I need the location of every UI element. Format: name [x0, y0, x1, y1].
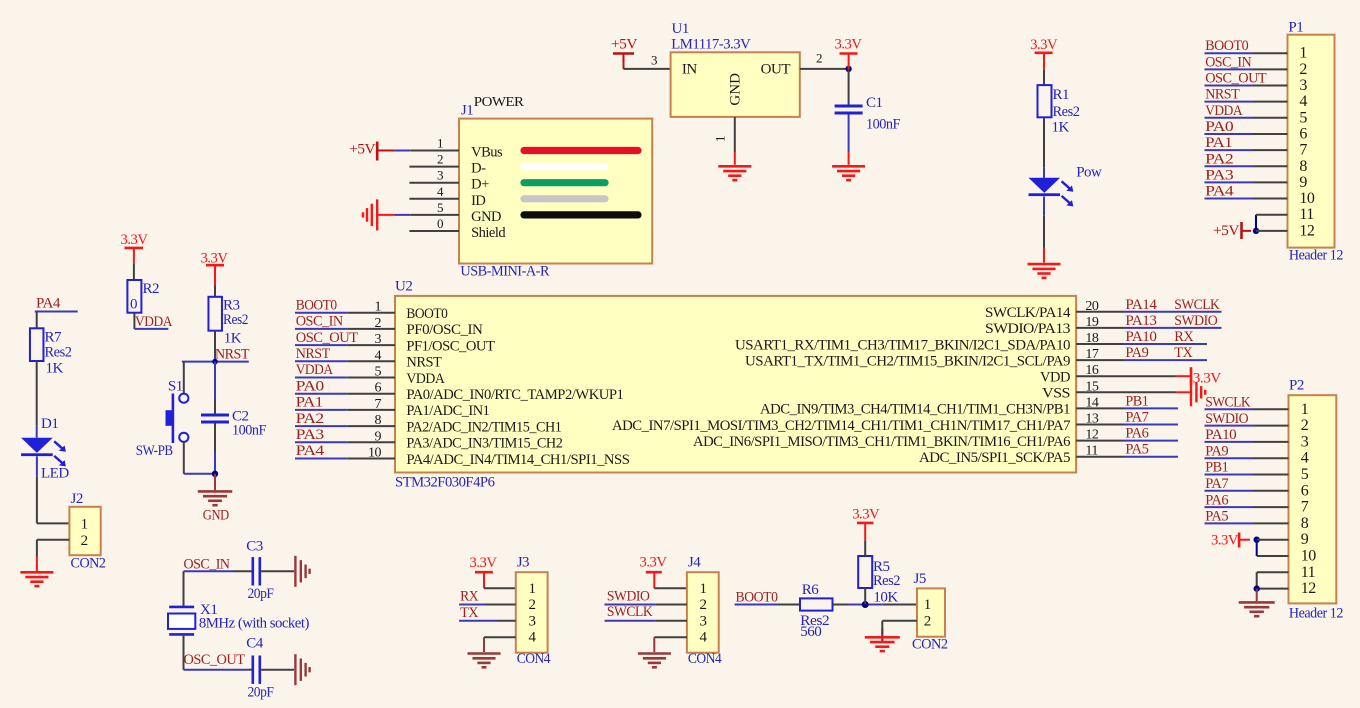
svg-text:VDDA: VDDA [135, 314, 173, 330]
svg-text:VBus: VBus [471, 145, 503, 161]
svg-text:6: 6 [1299, 125, 1307, 142]
ground (J2) [20, 571, 53, 574]
power 3.3V (VDD) [1190, 367, 1193, 385]
svg-text:PA1: PA1 [1205, 135, 1232, 151]
svg-text:3: 3 [529, 613, 536, 629]
svg-text:1: 1 [529, 581, 536, 597]
svg-text:U1: U1 [672, 21, 689, 37]
USB GND bar (black) [524, 211, 638, 218]
svg-text:8: 8 [375, 413, 382, 428]
wire [184, 570, 234, 572]
svg-text:PA7: PA7 [1125, 410, 1149, 426]
svg-text:TX: TX [460, 605, 479, 621]
svg-text:7: 7 [1301, 499, 1309, 516]
resistor R2 0 [127, 280, 141, 313]
svg-text:12: 12 [1301, 580, 1317, 597]
svg-text:USART1_RX/TIM1_CH3/TIM17_BKIN/: USART1_RX/TIM1_CH3/TIM17_BKIN/I2C1_SDA/P… [735, 337, 1070, 353]
wire [624, 68, 671, 70]
svg-text:3.3V: 3.3V [1030, 37, 1058, 53]
wire [409, 166, 459, 168]
wire [183, 571, 185, 606]
wire [1205, 149, 1254, 151]
ground (VSS) [1190, 378, 1192, 406]
svg-text:PA3/ADC_IN3/TIM15_CH2: PA3/ADC_IN3/TIM15_CH2 [406, 436, 562, 452]
svg-text:CON2: CON2 [71, 556, 106, 572]
wire [1205, 474, 1254, 476]
svg-text:2: 2 [1301, 417, 1309, 434]
svg-text:PA4: PA4 [296, 443, 325, 459]
wire [1076, 407, 1124, 409]
svg-text:RX: RX [460, 589, 479, 605]
svg-text:Pow: Pow [1076, 165, 1102, 181]
svg-text:PA7: PA7 [1205, 476, 1229, 492]
svg-text:12: 12 [1299, 222, 1315, 239]
wire [654, 636, 687, 638]
wire [1043, 117, 1045, 167]
wire [833, 604, 849, 606]
ground (J5) [865, 636, 900, 639]
svg-text:3: 3 [651, 53, 657, 68]
svg-text:Header 12: Header 12 [1289, 248, 1343, 264]
svg-text:PA4: PA4 [1205, 184, 1234, 200]
resistor R1 1K [1038, 85, 1052, 117]
wire [459, 604, 485, 606]
svg-text:ADC_IN9/TIM3_CH4/TIM14_CH1/TIM: ADC_IN9/TIM3_CH4/TIM14_CH1/TIM1_CH3N/PB1 [760, 402, 1070, 418]
svg-text:VSS: VSS [1042, 386, 1070, 402]
svg-text:4: 4 [1299, 93, 1307, 110]
svg-text:10: 10 [368, 446, 382, 461]
svg-text:+5V: +5V [1213, 223, 1240, 239]
svg-text:PA3: PA3 [1205, 167, 1233, 183]
node [1254, 585, 1260, 591]
svg-text:560: 560 [800, 624, 821, 640]
wire [214, 286, 216, 297]
crystal X1 8MHz [169, 606, 194, 609]
svg-text:BOOT0: BOOT0 [736, 590, 778, 606]
svg-text:PA1/ADC_IN1: PA1/ADC_IN1 [406, 403, 489, 419]
wire [864, 588, 866, 605]
wire [1205, 52, 1254, 54]
svg-text:2: 2 [700, 597, 707, 613]
wire [295, 441, 348, 443]
wire [1205, 457, 1254, 459]
svg-text:0: 0 [437, 216, 443, 231]
svg-text:9: 9 [1301, 531, 1309, 548]
svg-text:1K: 1K [1052, 120, 1070, 136]
svg-text:4: 4 [700, 630, 708, 646]
USB D- bar (white) [524, 163, 605, 170]
ground (J3) [468, 652, 501, 655]
svg-text:J1: J1 [461, 103, 473, 119]
svg-text:SWDIO: SWDIO [607, 588, 650, 604]
ground (OSC_OUT) [294, 654, 296, 685]
wire [295, 458, 348, 460]
svg-text:Res2: Res2 [45, 345, 72, 361]
svg-text:Res2: Res2 [1053, 104, 1080, 120]
svg-text:PA4/ADC_IN4/TIM14_CH1/SPI1_NSS: PA4/ADC_IN4/TIM14_CH1/SPI1_NSS [406, 452, 629, 468]
svg-text:PA10: PA10 [1205, 427, 1236, 443]
svg-text:1: 1 [713, 136, 728, 143]
svg-text:PA2/ADC_IN2/TIM15_CH1: PA2/ADC_IN2/TIM15_CH1 [406, 419, 561, 435]
svg-text:2: 2 [437, 152, 443, 167]
svg-text:Shield: Shield [471, 225, 506, 241]
svg-text:2: 2 [816, 51, 822, 66]
svg-text:2: 2 [1299, 61, 1307, 78]
svg-text:0: 0 [130, 297, 137, 313]
ground (C1) [832, 165, 865, 168]
svg-text:NRST: NRST [406, 355, 441, 371]
svg-text:PA6: PA6 [1205, 492, 1229, 508]
USB ID bar (gray) [524, 195, 605, 202]
svg-text:S1: S1 [168, 379, 183, 395]
svg-text:J3: J3 [517, 555, 529, 571]
svg-text:9: 9 [1299, 174, 1307, 191]
wire [261, 669, 294, 671]
svg-text:C3: C3 [246, 539, 263, 555]
wire [735, 604, 778, 606]
svg-text:POWER: POWER [474, 94, 524, 109]
wire [1205, 117, 1254, 119]
wire [848, 69, 850, 105]
svg-text:PA9: PA9 [1205, 443, 1228, 459]
wire [484, 587, 516, 589]
node [862, 601, 869, 608]
svg-text:ADC_IN7/SPI1_MOSI/TIM3_CH2/TIM: ADC_IN7/SPI1_MOSI/TIM3_CH2/TIM14_CH1/TIM… [612, 418, 1071, 434]
svg-text:CON4: CON4 [688, 651, 722, 667]
svg-text:5: 5 [1299, 109, 1307, 126]
svg-text:VDDA: VDDA [406, 371, 445, 387]
ground (Pow LED) [1028, 263, 1061, 266]
svg-text:100nF: 100nF [866, 117, 900, 133]
svg-text:3: 3 [1301, 433, 1309, 450]
wire [605, 604, 656, 606]
wire [1255, 215, 1257, 231]
wire [295, 425, 348, 427]
resistor R6 560 [800, 598, 833, 610]
svg-text:OSC_IN: OSC_IN [184, 556, 231, 572]
wire [1205, 181, 1254, 183]
svg-text:SWCLK: SWCLK [1205, 395, 1251, 411]
svg-text:8: 8 [1301, 515, 1309, 532]
wire [1076, 311, 1124, 313]
svg-text:11: 11 [1299, 206, 1314, 223]
svg-text:R7: R7 [45, 330, 63, 346]
wire (VDD) [1076, 375, 1175, 377]
node (3.3V rail) [845, 66, 851, 72]
svg-text:3.3V: 3.3V [835, 37, 863, 53]
wire [395, 150, 411, 152]
wire [295, 409, 348, 411]
wire [295, 328, 348, 330]
wire [1076, 456, 1124, 458]
svg-text:3: 3 [700, 613, 707, 629]
svg-text:BOOT0: BOOT0 [1205, 38, 1248, 54]
wire [1256, 540, 1258, 556]
svg-text:OSC_OUT: OSC_OUT [184, 652, 245, 668]
svg-text:2: 2 [529, 597, 536, 613]
svg-text:PA13: PA13 [1125, 313, 1156, 329]
svg-text:NRST: NRST [296, 346, 330, 362]
svg-text:9: 9 [375, 429, 382, 444]
wire [654, 587, 687, 589]
wire [1205, 165, 1254, 167]
svg-text:PA0: PA0 [296, 378, 324, 394]
wire [1043, 197, 1045, 216]
svg-text:Res2: Res2 [873, 573, 900, 589]
wire [37, 539, 70, 541]
svg-text:BOOT0: BOOT0 [296, 297, 337, 313]
svg-text:PA3: PA3 [296, 427, 324, 443]
svg-text:OUT: OUT [761, 62, 791, 78]
USB VBus bar (red) [524, 147, 638, 154]
wire [1043, 70, 1045, 85]
wire [459, 620, 497, 622]
capacitor C1 100nF [835, 105, 863, 108]
wire [605, 620, 656, 622]
wire [182, 361, 249, 363]
svg-text:CON4: CON4 [517, 651, 551, 667]
wire [484, 636, 516, 638]
svg-text:3: 3 [1299, 77, 1307, 94]
svg-text:3.3V: 3.3V [470, 555, 498, 571]
svg-text:Header 12: Header 12 [1289, 606, 1343, 622]
ground (P2) [1239, 601, 1275, 604]
wire [1076, 424, 1124, 426]
wire [295, 393, 348, 395]
svg-text:SWDIO: SWDIO [1174, 313, 1218, 329]
wire (VSS) [1076, 391, 1175, 393]
ground (J1 GND) [376, 199, 378, 230]
svg-text:4: 4 [437, 184, 444, 199]
svg-text:6: 6 [375, 381, 382, 396]
svg-text:8MHz (with socket): 8MHz (with socket) [199, 616, 309, 632]
svg-text:P1: P1 [1288, 20, 1303, 36]
svg-text:10K: 10K [873, 589, 898, 605]
wire [295, 377, 348, 379]
wire [35, 311, 78, 313]
svg-text:PF1/OSC_OUT: PF1/OSC_OUT [406, 338, 494, 354]
svg-text:PA0/ADC_IN0/RTC_TAMP2/WKUP1: PA0/ADC_IN0/RTC_TAMP2/WKUP1 [406, 387, 623, 403]
svg-text:SWCLK: SWCLK [607, 604, 653, 620]
svg-text:10: 10 [1299, 190, 1315, 207]
svg-text:1: 1 [1299, 45, 1307, 62]
svg-text:3.3V: 3.3V [201, 250, 229, 266]
svg-text:GND: GND [203, 508, 230, 524]
svg-text:IN: IN [682, 62, 697, 78]
svg-text:CON2: CON2 [912, 636, 948, 652]
wire [1205, 441, 1254, 443]
svg-text:R2: R2 [143, 281, 160, 297]
wire [1076, 327, 1124, 329]
svg-text:3.3V: 3.3V [640, 555, 668, 571]
svg-text:100nF: 100nF [232, 423, 266, 439]
svg-text:LED: LED [41, 466, 69, 482]
wire [295, 344, 348, 346]
svg-text:D-: D- [471, 161, 486, 177]
wire [214, 331, 216, 355]
svg-text:3.3V: 3.3V [1211, 533, 1239, 549]
wire [1205, 85, 1254, 87]
svg-text:Res2: Res2 [223, 312, 248, 328]
USB D+ bar (green) [524, 179, 605, 186]
svg-text:LM1117-3.3V: LM1117-3.3V [671, 36, 751, 52]
ground (OSC_IN) [294, 556, 296, 587]
svg-text:4: 4 [529, 630, 537, 646]
wire [295, 360, 348, 362]
svg-text:NRST: NRST [1205, 87, 1239, 103]
svg-text:3.3V: 3.3V [852, 507, 880, 523]
svg-text:1K: 1K [224, 331, 242, 347]
wire [1205, 490, 1254, 492]
wire [1205, 198, 1254, 200]
svg-text:2: 2 [375, 316, 382, 331]
svg-text:SWCLK/PA14: SWCLK/PA14 [985, 305, 1071, 321]
svg-text:20pF: 20pF [248, 586, 274, 602]
svg-text:PA10: PA10 [1125, 329, 1156, 345]
svg-text:3.3V: 3.3V [121, 232, 149, 248]
svg-text:PA6: PA6 [1125, 426, 1149, 442]
svg-text:OSC_IN: OSC_IN [296, 314, 344, 330]
wire [214, 424, 216, 453]
svg-text:USB-MINI-A-R: USB-MINI-A-R [460, 264, 549, 280]
svg-text:1: 1 [437, 136, 443, 151]
svg-text:PF0/OSC_IN: PF0/OSC_IN [406, 322, 483, 338]
svg-text:7: 7 [375, 397, 382, 412]
svg-text:SWDIO/PA13: SWDIO/PA13 [985, 321, 1070, 337]
svg-text:4: 4 [375, 348, 382, 363]
resistor R5 10K [858, 556, 872, 588]
svg-text:R6: R6 [802, 582, 820, 598]
wire [133, 313, 135, 329]
svg-text:PA2: PA2 [296, 411, 324, 427]
svg-text:OSC_OUT: OSC_OUT [1205, 71, 1266, 87]
svg-text:1: 1 [700, 581, 707, 597]
svg-text:PB1: PB1 [1205, 460, 1228, 476]
resistor R7 1K [30, 328, 44, 361]
svg-text:J4: J4 [688, 555, 701, 571]
svg-text:3: 3 [437, 168, 443, 183]
wire [183, 636, 185, 670]
svg-text:OSC_IN: OSC_IN [1205, 54, 1252, 70]
svg-text:+5V: +5V [349, 142, 376, 158]
svg-text:PA1: PA1 [296, 395, 323, 411]
capacitor C2 100nF [201, 414, 229, 417]
svg-text:1K: 1K [46, 361, 64, 377]
svg-text:STM32F030F4P6: STM32F030F4P6 [395, 475, 495, 491]
svg-text:PA14: PA14 [1125, 297, 1157, 313]
svg-text:3: 3 [375, 332, 382, 347]
wire [1076, 359, 1124, 361]
wire [295, 312, 348, 314]
svg-text:P2: P2 [1289, 378, 1304, 394]
svg-text:PA9: PA9 [1125, 345, 1148, 361]
svg-text:5: 5 [375, 365, 382, 380]
wire [734, 117, 736, 152]
svg-text:PA5: PA5 [1125, 442, 1148, 458]
svg-text:GND: GND [728, 73, 744, 106]
svg-text:20pF: 20pF [248, 685, 274, 701]
svg-text:VDDA: VDDA [1205, 103, 1243, 119]
svg-text:D1: D1 [41, 416, 58, 432]
wire [214, 474, 216, 491]
svg-text:ADC_IN6/SPI1_MISO/TIM3_CH1/TIM: ADC_IN6/SPI1_MISO/TIM3_CH1/TIM1_BKIN/TIM… [693, 434, 1071, 450]
node (NRST) [212, 359, 218, 365]
svg-text:+5V: +5V [611, 37, 638, 53]
wire [1205, 68, 1254, 70]
svg-text:5: 5 [437, 200, 443, 215]
svg-text:J2: J2 [71, 491, 83, 507]
ground (U1 GND) [718, 165, 751, 168]
wire [395, 214, 411, 216]
svg-text:SW-PB: SW-PB [136, 443, 173, 459]
wire [1205, 133, 1254, 135]
node [1254, 537, 1260, 543]
resistor R3 1K [208, 297, 222, 331]
wire [1205, 425, 1254, 427]
wire [1205, 522, 1254, 524]
wire [1076, 343, 1124, 345]
svg-text:11: 11 [1301, 564, 1316, 581]
wire [800, 68, 849, 70]
svg-text:TX: TX [1174, 345, 1193, 361]
svg-text:VDDA: VDDA [296, 362, 334, 378]
wire [864, 541, 866, 556]
svg-text:C1: C1 [866, 95, 883, 111]
svg-text:OSC_OUT: OSC_OUT [296, 330, 358, 346]
svg-text:4: 4 [1301, 450, 1309, 467]
wire [214, 362, 216, 399]
svg-text:1: 1 [81, 517, 88, 533]
svg-text:1: 1 [924, 597, 931, 613]
svg-text:ID: ID [471, 193, 485, 209]
wire [848, 115, 850, 153]
svg-text:1: 1 [375, 300, 382, 315]
svg-text:2: 2 [924, 614, 931, 630]
svg-text:NRST: NRST [215, 346, 249, 362]
svg-text:R1: R1 [1053, 87, 1070, 103]
svg-text:J5: J5 [914, 571, 926, 587]
svg-text:7: 7 [1299, 142, 1307, 159]
svg-text:6: 6 [1301, 482, 1309, 499]
svg-text:VDD: VDD [1040, 370, 1071, 386]
ground (J4) [638, 652, 671, 655]
svg-text:ADC_IN5/SPI1_SCK/PA5: ADC_IN5/SPI1_SCK/PA5 [919, 450, 1070, 466]
wire [36, 456, 38, 476]
wire [1205, 101, 1254, 103]
node [1253, 228, 1259, 234]
wire [1205, 506, 1254, 508]
wire [1076, 440, 1124, 442]
svg-text:SWCLK: SWCLK [1174, 297, 1220, 313]
node [212, 471, 218, 477]
svg-text:USART1_TX/TIM1_CH2/TIM15_BKIN/: USART1_TX/TIM1_CH2/TIM15_BKIN/I2C1_SCL/P… [745, 353, 1070, 369]
svg-text:5: 5 [1301, 466, 1309, 483]
svg-text:BOOT0: BOOT0 [406, 306, 447, 322]
svg-text:D+: D+ [471, 177, 489, 193]
svg-text:C4: C4 [246, 636, 264, 652]
svg-text:PB1: PB1 [1125, 393, 1148, 409]
wire [133, 264, 135, 280]
svg-text:10: 10 [1301, 548, 1317, 565]
wire [1257, 571, 1289, 573]
svg-text:PA2: PA2 [1205, 151, 1233, 167]
svg-text:2: 2 [81, 533, 88, 549]
svg-text:1: 1 [1301, 401, 1309, 418]
wire [882, 620, 917, 622]
svg-text:PA0: PA0 [1205, 119, 1233, 135]
svg-text:PA4: PA4 [36, 296, 61, 312]
svg-text:PA5: PA5 [1205, 509, 1228, 525]
